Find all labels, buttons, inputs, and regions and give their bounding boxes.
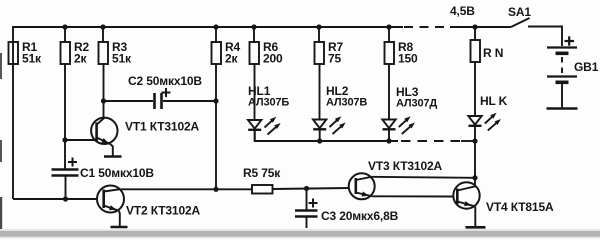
node HLK cathode [472, 138, 477, 143]
wire switch to battery corner [528, 27, 562, 47]
label R7 [328, 40, 344, 66]
label R6 [263, 40, 283, 66]
svg-text:С2 50мкх10В: С2 50мкх10В [128, 74, 202, 88]
svg-text:75: 75 [328, 52, 342, 66]
wire VT1 emitter to ground [111, 144, 113, 155]
svg-text:4,5В: 4,5В [450, 4, 475, 18]
node VT1 base [62, 137, 67, 142]
capacitor C2 [155, 93, 162, 109]
wire HL1 cathode lead [254, 130, 256, 141]
node C2 right [213, 98, 218, 103]
switch SA1 lever [511, 18, 530, 27]
resistor R1 [9, 42, 19, 64]
scan artifact bottom band [0, 231, 600, 237]
node C1 bottom [63, 196, 68, 201]
wire C1 bottom to VT2 base line [65, 176, 67, 200]
svg-text:VT4 КТ815А: VT4 КТ815А [486, 200, 554, 214]
LED HL1 [248, 117, 281, 135]
node R6 top [251, 24, 256, 29]
svg-text:VT3 КТ3102А: VT3 КТ3102А [368, 159, 442, 173]
wire VT3 emitter to VT4 base [372, 195, 453, 197]
LED HL2 [313, 116, 346, 134]
svg-text:АЛ307В: АЛ307В [326, 97, 367, 109]
svg-text:R5 75к: R5 75к [243, 166, 281, 180]
label R4 [225, 40, 241, 66]
svg-text:51к: 51к [112, 52, 132, 66]
transistor VT4 [453, 182, 479, 208]
transistor VT3 [349, 173, 375, 199]
svg-text:150: 150 [398, 52, 418, 66]
resistor R4 [212, 27, 222, 64]
transistor VT2 [97, 186, 124, 213]
resistor R8 [385, 27, 395, 64]
wire R6 bottom to HL1 [254, 64, 256, 120]
wire VT2 base line [13, 198, 97, 200]
label R8 [398, 40, 418, 66]
svg-text:GB1: GB1 [574, 60, 599, 74]
svg-text:VT1 КТ3102А: VT1 КТ3102А [125, 120, 199, 134]
node dots [62, 24, 477, 201]
label HL1 [248, 84, 289, 109]
svg-text:R N: R N [483, 46, 503, 60]
wire LED cathode bus solid [255, 130, 398, 141]
plus sign of C1 [68, 158, 77, 167]
wire HL3 cathode lead [388, 129, 390, 141]
wire VT2 emitter to ground [118, 211, 121, 226]
wire top rail right segment to switch [450, 26, 511, 28]
svg-text:АЛ307Д: АЛ307Д [396, 98, 437, 110]
wire VT1 base from R2 line [65, 139, 97, 141]
wire LED cathode bus right end [461, 140, 475, 142]
label R2 [74, 40, 90, 66]
wire C2 row left [104, 100, 154, 102]
wire LED cathode bus dashed [401, 140, 463, 142]
transistor VT1 [91, 118, 117, 145]
capacitor C1 [52, 170, 79, 176]
node R8 top [386, 24, 391, 29]
wire RN bottom to HLK [474, 62, 476, 116]
ground of VT1 [104, 155, 122, 158]
resistor R7 [315, 27, 325, 64]
wire R8 bottom to HL3 [388, 64, 390, 120]
node HL3 cathode [386, 138, 391, 143]
LED HL3 [382, 116, 415, 134]
wire R7 bottom to HL2 [319, 64, 321, 120]
wire VT4 emitter to ground [474, 206, 476, 226]
svg-text:С3 20мкх6,8В: С3 20мкх6,8В [321, 209, 399, 223]
resistor RN [471, 27, 481, 62]
label HL2 [326, 84, 367, 109]
scan artifact left edge marks [0, 53, 2, 229]
wire VT2 collector row to R5 [120, 188, 253, 190]
node HL2 cathode [317, 138, 322, 143]
ground of GB1 [547, 107, 578, 110]
label R1 [22, 40, 42, 66]
ground of VT4 [466, 226, 486, 229]
svg-text:С1 50мкх10В: С1 50мкх10В [80, 166, 154, 180]
battery GB1 [547, 48, 577, 83]
wire R5 right to VT3 base [273, 188, 350, 189]
node R2 top [62, 24, 67, 29]
wire C3 bottom lead [306, 217, 308, 229]
label R3 [112, 40, 132, 66]
node C3 top [304, 186, 309, 191]
wire top rail dashed segment [404, 26, 452, 28]
capacitor C3 [295, 211, 318, 217]
wire R3 bottom to VT1 collector [103, 64, 105, 119]
wire R2 bottom to VT1 base node and C1 [64, 64, 66, 169]
ground of VT2 [111, 226, 128, 229]
wire R4 vertical down [215, 64, 217, 189]
wire VT3 collector to node [372, 177, 476, 178]
svg-text:HL K: HL K [480, 94, 508, 108]
node RN top [472, 24, 477, 29]
LED HLK [468, 113, 501, 131]
resistor R6 [250, 27, 260, 64]
wire C3 stem [306, 189, 308, 210]
node R4 bottom [213, 187, 218, 192]
svg-text:SA1: SA1 [508, 5, 531, 19]
plus sign of C3 [309, 199, 318, 208]
resistor R3 [99, 27, 109, 64]
svg-text:2к: 2к [74, 52, 88, 66]
wire C2 row right [163, 100, 216, 102]
node R3 top [100, 24, 105, 29]
svg-text:VT2 КТ3102А: VT2 КТ3102А [126, 204, 200, 218]
label HL3 [396, 85, 437, 110]
node VT4 collector [472, 175, 477, 180]
svg-text:200: 200 [263, 52, 283, 66]
svg-text:2к: 2к [225, 52, 239, 66]
wire top supply rail left solid segment [13, 27, 403, 199]
svg-text:51к: 51к [22, 52, 42, 66]
node R7 top [316, 24, 321, 29]
node C2 left [101, 98, 106, 103]
plus sign of C2 [162, 88, 171, 97]
wire HL2 cathode lead [319, 129, 321, 141]
plus sign of GB1 [565, 36, 575, 45]
resistor R2 [61, 27, 71, 64]
node R4 top [213, 24, 218, 29]
wire HLK cathode lead down to VT4 collector node [474, 126, 476, 186]
resistor R5 [252, 185, 273, 194]
wire GB1 minus lead [561, 84, 563, 108]
svg-text:АЛ307Б: АЛ307Б [248, 97, 289, 109]
